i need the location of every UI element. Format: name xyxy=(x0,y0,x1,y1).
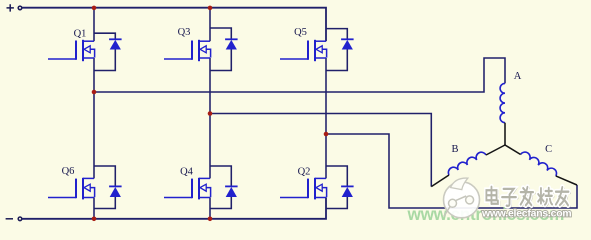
node: star (wye) center point xyxy=(504,144,506,146)
transistor Q4 xyxy=(164,167,211,200)
wire: leg x=94 middle (upper source to lower drain) xyxy=(93,58,95,178)
wire: leg x=210 drain drop from top bus xyxy=(209,8,211,41)
wire: phase 3 output to motor terminal C xyxy=(326,134,577,208)
svg-text:Q1: Q1 xyxy=(74,29,87,40)
wire: leg x=94 lower source to bottom bus xyxy=(93,198,95,219)
junction node (210,113.5) xyxy=(208,111,213,116)
wire: bottom DC bus xyxy=(22,198,326,219)
junction node (94,92) xyxy=(92,90,97,95)
wire: C branch stubs (black) xyxy=(505,145,577,185)
svg-text:www.elecfans.com: www.elecfans.com xyxy=(481,208,571,219)
transistor Q6 xyxy=(48,166,95,199)
terminal + (DC bus positive) xyxy=(7,4,22,11)
coil C (motor phase C winding) xyxy=(521,144,557,176)
wire: phase 2 output to motor terminal B xyxy=(210,114,431,187)
svg-text:B: B xyxy=(451,144,458,155)
transistor Q3 xyxy=(164,27,211,61)
transistor Q2 xyxy=(280,167,327,200)
wire: B branch stubs (black) xyxy=(431,145,505,187)
junction node (94,218.8) xyxy=(92,217,97,222)
diode (freewheel, lower leg x=326) xyxy=(326,166,354,209)
junction node (326,134) xyxy=(324,132,329,137)
svg-text:Q6: Q6 xyxy=(62,166,75,177)
diode (freewheel, lower leg x=94) xyxy=(94,166,122,209)
terminal - (DC bus negative) xyxy=(6,217,22,221)
diode (freewheel, lower leg x=210) xyxy=(210,166,238,209)
wire: top DC bus xyxy=(22,8,326,42)
wire: phase 1 output to motor terminal A xyxy=(94,58,505,92)
diode (freewheel, upper leg x=326) xyxy=(326,29,354,71)
diode (freewheel, upper leg x=210) xyxy=(210,28,238,71)
junction node (210,7.9) xyxy=(208,6,213,11)
transistor Q1 xyxy=(48,29,95,62)
svg-text:Q2: Q2 xyxy=(298,167,311,178)
coil A (motor phase A winding) xyxy=(500,71,522,123)
coil B (motor phase B winding) xyxy=(448,144,486,175)
transistor Q5 xyxy=(280,27,327,61)
diode (freewheel, upper leg x=94) xyxy=(94,33,122,70)
wire: leg x=326 middle (upper source to lower drain) xyxy=(325,58,327,178)
wire: leg x=210 lower source to bottom bus xyxy=(209,198,211,219)
wire: leg x=94 drain drop from top bus xyxy=(93,8,95,41)
svg-text:Q5: Q5 xyxy=(294,27,307,38)
junction node (210,218.8) xyxy=(208,217,213,222)
svg-text:C: C xyxy=(545,144,552,155)
svg-text:Q4: Q4 xyxy=(180,167,194,178)
svg-text:Q3: Q3 xyxy=(178,27,191,38)
junction node (94,7.9) xyxy=(92,6,97,11)
wire: coil A to star point (black) xyxy=(504,123,506,145)
svg-text:A: A xyxy=(514,71,522,82)
wire: leg x=210 middle (upper source to lower drain) xyxy=(209,58,211,178)
